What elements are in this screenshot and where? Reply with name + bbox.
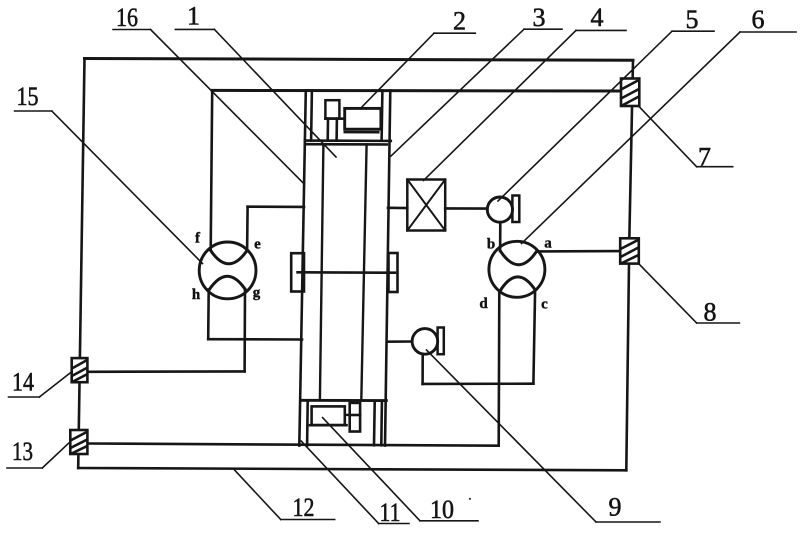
speck: [469, 498, 471, 500]
bottom actuator right inner wall 1: [373, 403, 376, 446]
label 9 leader: [427, 350, 661, 522]
wire c vertical: [533, 290, 535, 383]
top actuator division line: [325, 117, 344, 120]
valve 7 hatched: [621, 79, 639, 107]
svg-text:6: 6: [752, 5, 765, 34]
wire e horizontal: [248, 205, 304, 208]
right valve top arc: [500, 251, 537, 265]
label 6 leader: [522, 32, 797, 244]
wire valve 13 to d: [87, 444, 498, 446]
right valve bottom arc: [500, 277, 535, 291]
outer pipe loop right: [626, 60, 633, 470]
svg-text:14: 14: [12, 368, 34, 397]
svg-text:c: c: [541, 297, 548, 313]
label 11 leader: [301, 441, 409, 524]
label 1 leader: [175, 29, 336, 157]
wire h vertical: [207, 290, 210, 340]
label 16 leader: [113, 30, 304, 185]
outer pipe loop left: [78, 59, 84, 469]
svg-text:2: 2: [453, 7, 466, 36]
label 3 leader: [391, 29, 562, 156]
svg-text:h: h: [192, 287, 201, 303]
pump 9 stem: [421, 354, 424, 384]
left four-port valve circle efgh: [199, 242, 256, 299]
svg-text:11: 11: [380, 498, 401, 527]
wire c to pump 9: [423, 382, 534, 385]
valve 14 hatched: [72, 358, 88, 382]
label 10 leader: [323, 418, 478, 521]
cylinder inner wall left: [320, 144, 324, 400]
svg-text:15: 15: [17, 82, 39, 111]
pump 5 circle: [487, 197, 512, 222]
svg-text:b: b: [487, 237, 495, 253]
svg-text:7: 7: [698, 143, 711, 172]
bottom actuator plunger band: [350, 403, 360, 432]
bottom actuator body 10: [312, 406, 345, 425]
label 2 leader: [360, 33, 475, 108]
bottom actuator left inner wall: [306, 401, 309, 446]
bottom actuator body bottom line: [310, 424, 347, 427]
label 8 leader: [639, 264, 739, 323]
piston rod line: [298, 271, 395, 274]
crossed box 4: [407, 180, 445, 231]
svg-text:1: 1: [187, 2, 200, 31]
left valve top arc: [211, 250, 247, 263]
top actuator plunger stem left: [326, 119, 329, 141]
cylinder top cap: [305, 143, 387, 146]
valve 8 hatched: [620, 238, 639, 263]
svg-text:12: 12: [293, 493, 315, 522]
svg-text:13: 13: [12, 437, 33, 466]
top actuator body 2: [345, 108, 381, 129]
label 12 leader: [233, 469, 334, 520]
label 7 leader: [639, 107, 733, 167]
wire g vertical: [243, 289, 246, 371]
top actuator bottom line: [305, 139, 391, 142]
label 5 leader: [498, 31, 714, 201]
cylinder wall R1: [385, 90, 390, 445]
wire a to valve 8: [537, 250, 620, 253]
cylinder inner wall right: [361, 144, 366, 400]
top actuator right inner wall: [380, 90, 383, 140]
pump 5 flag: [512, 196, 519, 223]
label 4 leader: [424, 30, 627, 180]
wire h horizontal: [208, 338, 302, 341]
label 15 leader: [15, 111, 203, 264]
wire d vertical: [497, 291, 500, 446]
bottom actuator stub: [347, 414, 350, 416]
right four-port valve circle abcd: [489, 241, 545, 297]
bottom actuator right inner wall 2: [380, 403, 383, 446]
piston flange right: [389, 253, 398, 292]
svg-text:9: 9: [609, 493, 622, 522]
wire cylinder to crossed box: [388, 207, 407, 210]
svg-text:10: 10: [430, 495, 454, 524]
inner pipe left edge / port f stem: [211, 90, 213, 250]
top actuator left inner wall: [310, 90, 313, 140]
inner pipe top line: [212, 89, 621, 93]
wire g to valve 14: [87, 370, 244, 373]
svg-text:5: 5: [686, 5, 699, 34]
wire e vertical: [246, 207, 249, 251]
bottom actuator plunger division: [350, 414, 360, 417]
top actuator shelf: [345, 131, 378, 134]
top actuator plunger stem right: [335, 119, 338, 141]
cylinder bottom cap: [301, 399, 387, 402]
wire b vertical: [499, 222, 502, 251]
svg-text:a: a: [544, 236, 552, 252]
label 13 leader: [7, 442, 71, 469]
outer pipe loop top: [85, 59, 634, 61]
svg-text:d: d: [479, 296, 488, 312]
svg-text:e: e: [254, 237, 261, 253]
svg-text:4: 4: [591, 3, 604, 32]
outer pipe loop bottom: [78, 468, 626, 470]
valve 13 hatched: [70, 430, 87, 454]
wire cylinder to pump 9: [387, 340, 412, 343]
pump 9 flag: [438, 328, 444, 355]
label 14 leader: [9, 372, 73, 398]
left valve bottom arc: [209, 276, 245, 289]
piston flange left: [291, 253, 304, 291]
top actuator plunger head: [325, 100, 339, 118]
svg-text:3: 3: [533, 3, 546, 32]
svg-text:g: g: [253, 285, 261, 301]
svg-text:8: 8: [704, 298, 717, 327]
cylinder wall L1: [299, 90, 306, 445]
pump 9 circle: [412, 329, 438, 355]
svg-text:16: 16: [116, 3, 138, 32]
wire crossed box to pump 5: [445, 207, 487, 210]
